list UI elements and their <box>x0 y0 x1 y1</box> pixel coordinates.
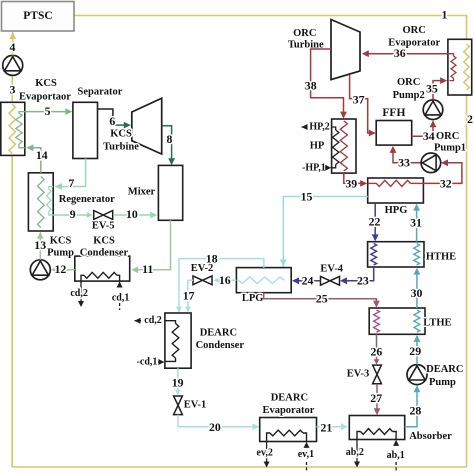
svg-text:ev,1: ev,1 <box>298 449 314 460</box>
KCS evaporator box <box>1 102 25 155</box>
svg-text:HTHE: HTHE <box>426 252 456 263</box>
DEARC evaporator box <box>260 418 317 442</box>
svg-text:32: 32 <box>440 176 452 190</box>
svg-text:25: 25 <box>316 292 328 306</box>
HP label <box>310 141 325 152</box>
EV-3 label <box>347 369 370 380</box>
svg-text:KCS: KCS <box>50 236 72 247</box>
svg-text:17: 17 <box>183 288 195 302</box>
svg-text:HPG: HPG <box>385 205 408 216</box>
Separator label <box>78 87 123 98</box>
node 4 label <box>9 40 15 54</box>
node 22 label <box>369 214 381 228</box>
arrow 9 into valve <box>87 212 93 218</box>
node 30 label <box>411 286 423 300</box>
svg-text:20: 20 <box>209 420 221 434</box>
ORC Pump1 label <box>434 131 466 154</box>
LTHE teal coil <box>414 310 420 332</box>
cd,1 inlet of KCS condenser <box>112 282 130 311</box>
svg-text:21: 21 <box>321 420 333 434</box>
arrow 10 into mixer <box>150 212 157 219</box>
wire 29 pump to LTHE <box>416 336 418 364</box>
node 5 label <box>45 104 51 118</box>
wire 19 condenser to EV-1 <box>175 368 181 395</box>
arrow 7 into regenerator <box>55 183 62 190</box>
svg-text:4: 4 <box>9 40 15 54</box>
svg-text:cd,1: cd,1 <box>112 292 130 303</box>
wire 18 LPG vapor to DEARC condenser <box>179 259 264 311</box>
pump ORC Pump2 <box>423 100 443 120</box>
arrow 5 into separator <box>65 108 72 115</box>
ab,1 inlet <box>387 440 405 471</box>
svg-text:35: 35 <box>426 82 438 96</box>
node 24 label <box>302 274 314 288</box>
svg-text:14: 14 <box>36 148 48 162</box>
arrow 26 into EV-3 <box>374 359 380 365</box>
svg-text:HP,2: HP,2 <box>309 122 329 133</box>
arrow 37 into FFH <box>369 130 376 137</box>
svg-text:26: 26 <box>371 344 383 358</box>
pump ORC Pump1 <box>421 153 441 173</box>
arrow 14 into evaporator <box>26 144 33 151</box>
HTHE label <box>426 252 456 263</box>
wire 15 HPG to LPG <box>283 197 367 279</box>
arrow 16 into valve <box>213 277 220 284</box>
svg-text:DEARC: DEARC <box>426 364 463 375</box>
wire 35 pump2 to evaporator <box>433 81 445 100</box>
LPG box <box>236 268 291 293</box>
HPG box <box>368 178 424 203</box>
svg-text:16: 16 <box>219 273 231 287</box>
svg-text:30: 30 <box>411 286 423 300</box>
node 21 label <box>321 420 333 434</box>
svg-text:15: 15 <box>301 189 313 203</box>
arrow 21 into absorber <box>341 423 348 430</box>
arrow 32 into pump1 <box>441 159 448 166</box>
svg-text:36: 36 <box>394 46 406 60</box>
svg-text:Pump: Pump <box>429 377 456 388</box>
svg-text:HP: HP <box>310 141 325 152</box>
wire 36 evaporator to ORC turbine <box>363 53 448 55</box>
arrow 36 into turbine <box>362 50 369 57</box>
HTHE navy coil <box>371 244 377 266</box>
ORC Evaporator label <box>388 25 440 49</box>
svg-text:12: 12 <box>55 262 67 276</box>
LTHE magenta coil <box>374 310 380 332</box>
svg-text:27: 27 <box>370 391 382 405</box>
cd,1 inlet of DEARC condenser <box>137 357 165 368</box>
node 20 label <box>209 420 221 434</box>
node 37 label <box>353 92 365 106</box>
node 17 label <box>183 288 195 302</box>
KCS condenser box <box>75 256 130 281</box>
arrow into PTSC <box>9 32 16 39</box>
wire 8 turbine to mixer <box>162 126 172 164</box>
svg-text:19: 19 <box>172 376 184 390</box>
DEARC evaporator cooling coil <box>267 430 307 441</box>
EV-1 label <box>184 400 207 411</box>
node 34 label <box>423 129 435 143</box>
arrow 27 into absorber <box>374 408 381 415</box>
valve EV-5 <box>94 211 113 220</box>
arrow 25 into LTHE <box>373 301 380 308</box>
node 18 label <box>206 251 218 265</box>
DEARC Condenser label <box>196 328 245 352</box>
regenerator coil <box>38 177 45 228</box>
svg-text:ORC: ORC <box>403 25 426 36</box>
svg-text:Mixer: Mixer <box>128 187 156 198</box>
svg-text:EV-2: EV-2 <box>191 263 214 274</box>
PTSC collector box <box>2 2 75 32</box>
svg-text:PTSC: PTSC <box>23 10 52 22</box>
svg-text:33: 33 <box>398 155 410 169</box>
KCS Condenser label <box>80 236 129 259</box>
mixer box <box>158 165 182 220</box>
svg-text:Pump1: Pump1 <box>434 142 466 153</box>
regenerator box <box>28 173 53 231</box>
wire 33 pump1 to FFH <box>393 149 421 163</box>
arrow 31 into HPG <box>413 204 420 211</box>
svg-text:EV-4: EV-4 <box>320 264 343 275</box>
svg-text:ORC: ORC <box>436 131 459 142</box>
ab,2 outlet <box>346 440 364 468</box>
svg-text:ab,1: ab,1 <box>387 450 405 461</box>
ev,2 outlet <box>257 442 273 468</box>
svg-text:LTHE: LTHE <box>423 318 451 329</box>
EV-2 label <box>191 263 214 274</box>
cd,2 outlet of KCS condenser <box>70 281 88 307</box>
wire 38 turbine to HP <box>311 49 344 117</box>
ORC Pump2 label <box>393 77 425 101</box>
arrow 15 into LPG coil <box>280 260 287 267</box>
svg-text:LPG: LPG <box>242 293 264 304</box>
wire 14 regenerator to evaporator <box>28 148 41 173</box>
KCS condenser cooling coil <box>81 272 120 282</box>
wire solar return bottom <box>12 466 466 468</box>
svg-text:28: 28 <box>410 404 422 418</box>
svg-text:Pump2: Pump2 <box>393 90 425 101</box>
wire 21 evaporator to absorber <box>317 426 347 428</box>
node 26 label <box>371 344 383 358</box>
wire 13 pump to regenerator <box>39 232 41 259</box>
node 23 label <box>357 274 369 288</box>
wire 16 LPG to valve <box>215 279 237 281</box>
node 19 label <box>172 376 184 390</box>
arrow 12 into pump <box>51 266 58 273</box>
node 11 label <box>142 262 153 276</box>
KCS turbine <box>132 98 162 154</box>
svg-text:EV-3: EV-3 <box>347 369 370 380</box>
wire 37 turbine to FFH <box>350 75 375 133</box>
wire 5 evaporator to separator <box>25 111 71 113</box>
ORC evaporator box <box>448 39 472 95</box>
valve EV-2 <box>193 276 212 285</box>
node 10 label <box>126 207 138 221</box>
ORC Turbine label <box>288 28 324 51</box>
node 38 label <box>305 78 317 92</box>
wire 17 valve to DEARC condenser <box>188 280 193 310</box>
arrow 18 into condenser <box>176 307 182 313</box>
cd,2 outlet of DEARC condenser <box>135 315 162 326</box>
svg-text:KCS: KCS <box>35 78 57 89</box>
LTHE label <box>423 318 451 329</box>
node 36 label <box>394 46 406 60</box>
wire 20 EV-1 to DEARC evaporator <box>178 415 258 427</box>
svg-text:ab,2: ab,2 <box>346 447 364 458</box>
wire 12 condenser to pump <box>52 269 75 271</box>
node 3 label <box>9 83 15 97</box>
arrow 20 into evaporator <box>252 423 259 430</box>
arrow 24 into LPG <box>292 277 299 284</box>
EV-5 label <box>92 221 115 232</box>
svg-text:-cd,1: -cd,1 <box>137 357 158 368</box>
svg-text:ORC: ORC <box>397 77 420 88</box>
svg-text:29: 29 <box>409 344 421 358</box>
svg-text:EV-1: EV-1 <box>184 400 207 411</box>
HPG label <box>385 205 408 216</box>
arrow 38 into HP <box>340 112 347 119</box>
wire 26 LTHE to EV-3 <box>376 334 378 361</box>
node 27 label <box>370 391 382 405</box>
Absorber label <box>409 431 452 442</box>
FFH box <box>376 121 412 146</box>
svg-text:24: 24 <box>302 274 314 288</box>
arrow 6 into turbine <box>124 122 131 129</box>
svg-text:DEARC: DEARC <box>271 393 308 404</box>
HPG red coil <box>368 180 424 186</box>
node 7 label <box>68 176 74 190</box>
svg-text:2: 2 <box>467 112 473 126</box>
node 32 label <box>440 176 452 190</box>
pump KCS solar feed pump <box>3 55 23 75</box>
node 14 label <box>36 148 48 162</box>
KCS Turbine label <box>103 128 139 152</box>
svg-text:11: 11 <box>142 262 153 276</box>
ORC turbine <box>331 20 360 80</box>
arrow 29 into LTHE <box>414 335 421 342</box>
node 39 label <box>345 176 357 190</box>
svg-text:Pump: Pump <box>47 248 74 259</box>
HP,1 inlet label <box>302 162 331 173</box>
node 2 label <box>467 112 473 126</box>
valve EV-4 <box>321 276 340 285</box>
arrow 35 into evaporator coil <box>440 77 447 84</box>
svg-text:KCS: KCS <box>110 128 132 139</box>
node 29 label <box>409 344 421 358</box>
node 6 label <box>109 114 115 128</box>
KCS evaporator solar zigzag <box>9 104 15 154</box>
svg-text:9: 9 <box>70 207 76 221</box>
pump DEARC pump <box>407 365 427 385</box>
node 33 label <box>398 155 410 169</box>
LTHE box <box>369 308 425 334</box>
wire 23 HTHE to valve <box>342 267 374 281</box>
wire 39 HP to HPG <box>344 173 365 183</box>
KCS Evaportaor label <box>19 78 71 103</box>
node 1 label <box>442 8 448 22</box>
node 25 label <box>316 292 328 306</box>
KCS Pump label <box>47 236 74 259</box>
ORC evaporator red coil <box>448 54 456 81</box>
svg-text:8: 8 <box>166 132 172 146</box>
svg-text:Evaportaor: Evaportaor <box>19 92 71 103</box>
pump KCS cycle pump <box>30 260 50 280</box>
arrow 28 into pump <box>414 385 421 392</box>
wire 25 LPG to LTHE <box>264 293 377 306</box>
node 13 label <box>34 238 46 252</box>
regenerator inner coil (7-9 stream) <box>47 187 54 216</box>
svg-text:-HP,1: -HP,1 <box>302 162 326 173</box>
node 15 label <box>301 189 313 203</box>
wire 27 EV-3 to absorber <box>376 384 378 413</box>
wire 11 mixer to condenser <box>133 220 171 269</box>
HP,2 outlet label <box>302 122 330 133</box>
wire 10 valve to mixer <box>113 214 155 216</box>
svg-text:31: 31 <box>410 216 422 230</box>
HP red coil <box>340 121 347 171</box>
arrow 23 into valve <box>340 277 347 284</box>
node 12 label <box>55 262 67 276</box>
arrow 17 into condenser <box>185 307 191 313</box>
svg-text:EV-5: EV-5 <box>92 221 115 232</box>
svg-text:KCS: KCS <box>93 236 115 247</box>
svg-text:Turbine: Turbine <box>103 142 139 153</box>
wire 24 valve to LPG <box>295 280 321 282</box>
svg-text:1: 1 <box>442 8 448 22</box>
svg-text:Condenser: Condenser <box>80 248 129 259</box>
svg-text:FFH: FFH <box>382 107 405 119</box>
svg-text:DEARC: DEARC <box>200 328 237 339</box>
arrow 30 into HTHE <box>414 268 421 275</box>
DEARC condenser box <box>165 313 191 368</box>
node 16 label <box>219 273 231 287</box>
arrow 8 into mixer <box>168 158 175 165</box>
wire 1 PTSC to ORC evaporator (solar hot line) <box>74 16 467 468</box>
svg-text:22: 22 <box>369 214 381 228</box>
node 28 label <box>410 404 422 418</box>
ORC evaporator solar zigzag <box>464 44 469 90</box>
DEARC Evaporator label <box>262 393 314 416</box>
wire 32 HPG to pump1 <box>423 163 462 184</box>
FFH label <box>382 107 405 119</box>
node 8 label <box>166 132 172 146</box>
svg-text:3: 3 <box>9 83 15 97</box>
svg-text:Condenser: Condenser <box>196 340 245 351</box>
valve EV-1 <box>174 396 183 415</box>
wire 31 HTHE to HPG <box>416 206 418 242</box>
DEARC Pump label <box>426 364 463 388</box>
svg-text:38: 38 <box>305 78 317 92</box>
wire 9 regenerator to valve <box>53 214 91 216</box>
svg-text:23: 23 <box>357 274 369 288</box>
svg-text:cd,2: cd,2 <box>144 315 162 326</box>
HP heat exchanger box <box>332 119 356 173</box>
wire 28 absorber to DEARC pump <box>405 387 417 427</box>
wire 3 evaporator to pump <box>11 76 13 103</box>
arrow 34 into pump2 <box>430 120 437 127</box>
wire 6 separator to turbine <box>98 109 113 125</box>
wire solar return left side <box>11 102 13 467</box>
node 35 label <box>426 82 438 96</box>
svg-text:5: 5 <box>45 104 51 118</box>
svg-text:39: 39 <box>345 176 357 190</box>
arrow 22 into HTHE <box>372 234 379 241</box>
svg-text:13: 13 <box>34 238 46 252</box>
wire 34 FFH to pump2 <box>412 122 433 137</box>
Regenerator label <box>59 194 115 205</box>
separator box <box>73 102 98 158</box>
svg-text:Evaporator: Evaporator <box>262 405 314 416</box>
HP black coil <box>332 127 339 168</box>
arrow 33 into FFH <box>390 146 397 153</box>
svg-text:Absorber: Absorber <box>409 431 452 442</box>
arrow 39 into HPG <box>360 180 367 187</box>
LPG cyan coil <box>238 277 283 284</box>
svg-text:10: 10 <box>126 207 138 221</box>
absorber box <box>349 416 404 440</box>
wire 7 separator to regenerator <box>56 159 86 187</box>
svg-text:ORC: ORC <box>293 28 316 39</box>
svg-text:cd,2: cd,2 <box>70 288 88 299</box>
LPG label <box>242 293 264 304</box>
node 31 label <box>410 216 422 230</box>
svg-text:37: 37 <box>353 92 365 106</box>
KCS evaporator green coil <box>16 112 25 148</box>
arrow 13 into regenerator <box>37 232 44 239</box>
HTHE box <box>368 242 424 267</box>
wire 6 inlet segment <box>113 124 126 126</box>
absorber cooling coil <box>357 429 396 440</box>
PTSC label <box>23 10 52 22</box>
EV-4 label <box>320 264 343 275</box>
svg-text:7: 7 <box>68 176 74 190</box>
svg-text:Regenerator: Regenerator <box>59 194 115 205</box>
svg-text:Separator: Separator <box>78 87 123 98</box>
Mixer label <box>128 187 156 198</box>
svg-text:6: 6 <box>109 114 115 128</box>
wire 30 LTHE to HTHE <box>416 270 418 308</box>
wire 22 HPG to HTHE <box>374 203 376 240</box>
svg-text:ev,2: ev,2 <box>257 447 273 458</box>
HTHE teal coil <box>414 244 420 266</box>
valve EV-3 <box>373 365 382 384</box>
wire 4 pump to PTSC <box>12 32 14 55</box>
DEARC condenser cooling coil <box>165 321 179 362</box>
node 9 label <box>70 207 76 221</box>
ev,1 inlet <box>298 442 314 471</box>
svg-text:34: 34 <box>423 129 435 143</box>
arrow 11 into condenser <box>131 266 138 273</box>
